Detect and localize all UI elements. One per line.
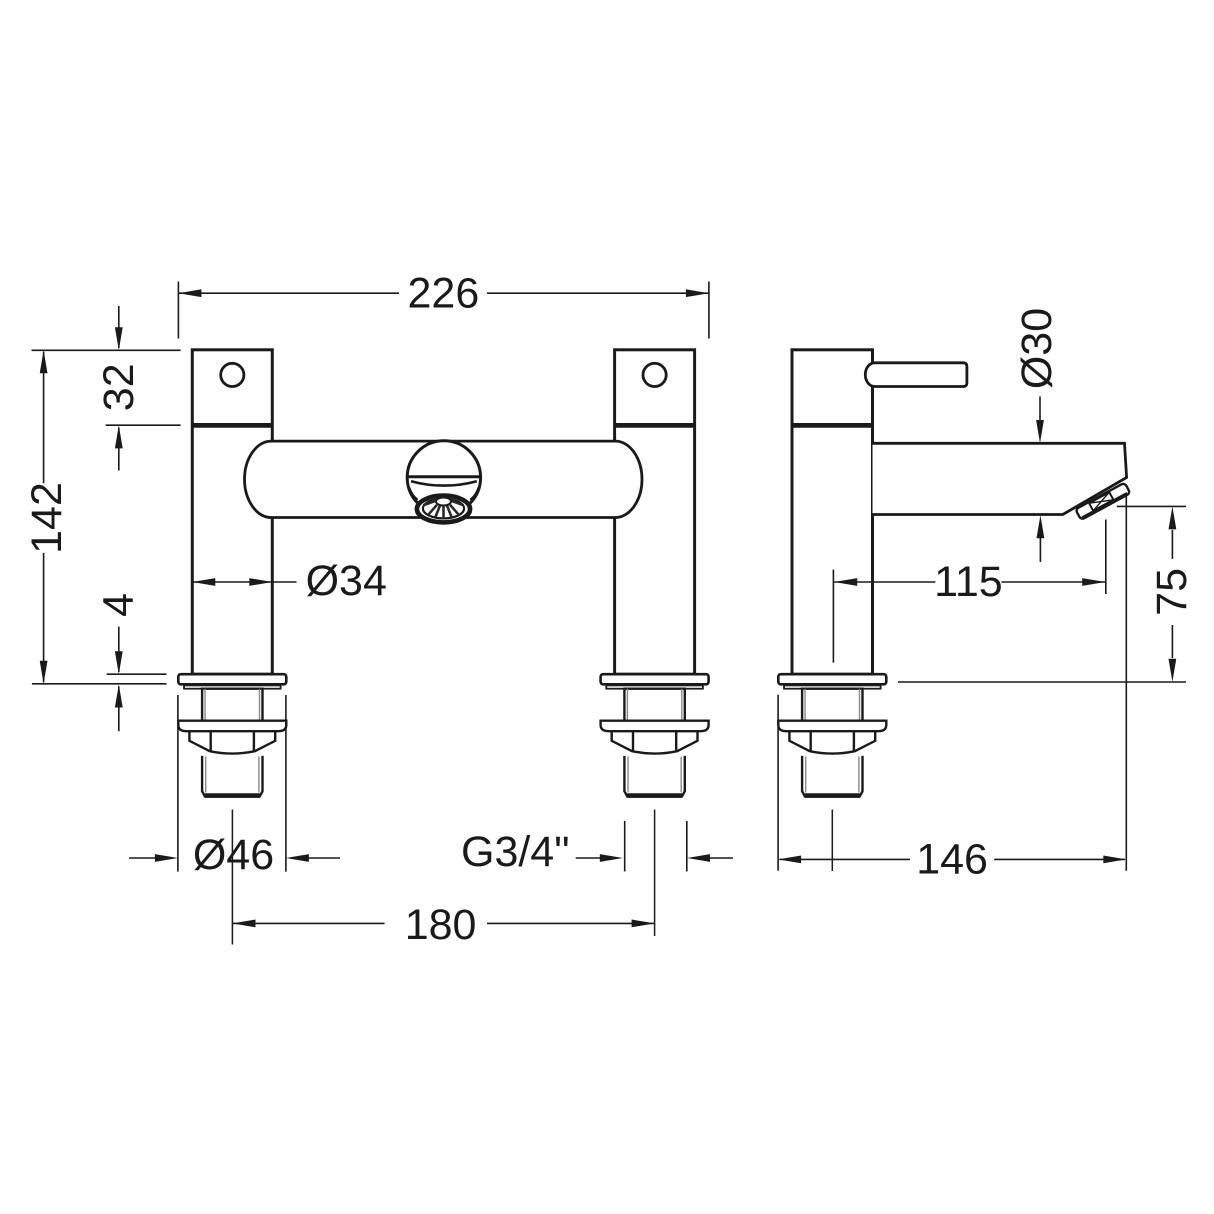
svg-text:115: 115	[934, 558, 1003, 606]
226 arrows	[178, 289, 201, 297]
lever handle	[865, 363, 967, 387]
washer	[184, 685, 281, 688]
75 arrows	[1169, 506, 1177, 529]
aerator inner ring	[423, 499, 464, 519]
left pillar indicator circle	[221, 363, 244, 386]
svg-text:75: 75	[1148, 568, 1196, 616]
dim 115 line	[834, 581, 935, 583]
dim 146 extension lines	[777, 695, 779, 871]
diverter equator line	[407, 475, 480, 478]
32 arrows	[115, 327, 123, 350]
dim 4 extension lines	[107, 673, 167, 675]
svg-text:226: 226	[408, 269, 480, 317]
dim 142 line	[43, 352, 45, 484]
dim 75 extension lines	[1117, 505, 1186, 507]
svg-text:Ø30: Ø30	[1013, 308, 1061, 389]
right pillar indicator circle	[643, 363, 666, 386]
dim 146 line	[780, 858, 910, 860]
threaded stub	[202, 756, 262, 797]
4 arrows	[115, 651, 123, 674]
left pillar	[192, 350, 272, 674]
svg-text:G3/4": G3/4"	[461, 828, 570, 876]
146 arrows	[778, 856, 801, 864]
left pillar cap separation thick line	[192, 423, 272, 428]
dim Ø30 arrows	[1039, 396, 1041, 420]
dim Ø34 line and leader	[192, 581, 272, 583]
threaded shank upper	[202, 689, 262, 721]
G3/4 arrows	[600, 854, 623, 862]
dim 75 line segments	[1171, 530, 1173, 559]
side view mounting hardware	[778, 674, 886, 796]
left pillar centerline	[231, 810, 233, 945]
right pillar	[615, 350, 695, 674]
svg-text:146: 146	[916, 836, 988, 884]
lock washer	[178, 721, 286, 732]
aerator hub	[436, 498, 451, 506]
dim 180 line	[233, 922, 385, 924]
180 arrows	[233, 920, 256, 928]
right pillar mounting hardware	[601, 674, 709, 796]
dim Ø46 arrow tails	[129, 857, 156, 859]
dim 4 arrows	[118, 627, 120, 672]
right pillar cap separation thick line	[615, 423, 695, 428]
svg-text:Ø46: Ø46	[193, 831, 274, 879]
svg-text:32: 32	[95, 363, 143, 411]
side pillar	[792, 350, 873, 674]
dim 32 extension lines	[32, 349, 181, 351]
dim G3/4 extension lines	[624, 821, 626, 872]
side pillar cap separation thick line	[792, 423, 873, 428]
svg-text:142: 142	[23, 482, 71, 554]
Ø30 arrows	[1036, 420, 1044, 443]
svg-text:Ø34: Ø34	[306, 557, 387, 605]
dim 115 extension line right	[1105, 520, 1107, 595]
hex nut	[189, 731, 275, 753]
diverter dome	[407, 441, 480, 514]
diverter skirt	[411, 481, 477, 485]
left pillar mounting hardware	[178, 674, 286, 796]
right pillar centerline	[654, 810, 656, 937]
dim 226 extension lines	[177, 282, 179, 339]
dim G3/4 arrow tails	[576, 857, 600, 859]
dim 226 line	[178, 292, 399, 294]
Ø46 arrows	[155, 854, 178, 862]
spout	[873, 443, 1127, 514]
deck flange	[178, 674, 286, 684]
body bar	[245, 441, 643, 517]
aerator outer ring	[417, 496, 470, 523]
aerator spokes	[423, 499, 463, 519]
dim 32 arrows	[118, 306, 120, 348]
svg-text:180: 180	[405, 901, 477, 949]
142 arrows	[40, 350, 48, 373]
svg-text:4: 4	[94, 593, 142, 617]
Ø34 arrows	[192, 578, 215, 586]
spout outlet housing	[1075, 483, 1130, 520]
side pillar centerline	[831, 810, 833, 872]
dim Ø46 extension lines	[177, 695, 179, 872]
dim 115 extension line left	[832, 570, 834, 663]
115 arrows	[834, 578, 857, 586]
